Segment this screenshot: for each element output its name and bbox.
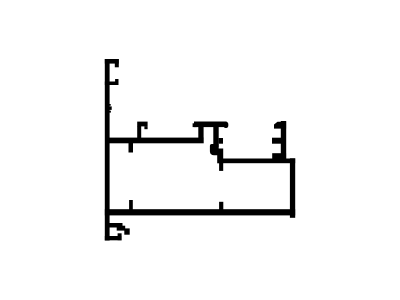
left wall [105, 59, 110, 241]
bottom hook step [117, 226, 126, 231]
clip bar right cap [224, 122, 229, 128]
middle web [106, 138, 204, 144]
screw channel top bar [105, 59, 119, 64]
bead profile middle tooth [272, 138, 281, 144]
screw channel top lip [115, 59, 119, 67]
clip top bar [194, 122, 227, 128]
wall serration 1 [109, 104, 111, 106]
bottom flange right tick [219, 202, 223, 210]
bead profile bar [281, 121, 286, 159]
wall serration 2 [109, 106, 112, 110]
wall serration 3 [109, 111, 111, 113]
web stub arm [137, 122, 147, 127]
clip connector [217, 149, 223, 164]
bottom flange left tick [129, 200, 133, 210]
bead profile top block [274, 122, 286, 129]
web lower stub [129, 143, 134, 153]
clip left leg [198, 127, 203, 138]
bottom hook finger [124, 228, 129, 234]
web stub tick [144, 126, 147, 129]
clip bar left tip [193, 123, 197, 127]
bottom hook lip [118, 233, 122, 240]
bottom hook arm [107, 223, 123, 228]
bead profile foot [272, 153, 286, 158]
glazing leg top line [219, 159, 295, 164]
screw channel bottom bar [105, 82, 119, 86]
bottom hook foot [105, 236, 122, 240]
bottom flange [105, 209, 295, 215]
top line left stub [219, 163, 223, 171]
clip tooth [219, 138, 223, 144]
right wall [290, 158, 295, 218]
screw channel bottom lip [115, 79, 118, 85]
clip knob [210, 144, 219, 155]
clip right leg [213, 127, 218, 147]
web stub stem [137, 126, 141, 139]
